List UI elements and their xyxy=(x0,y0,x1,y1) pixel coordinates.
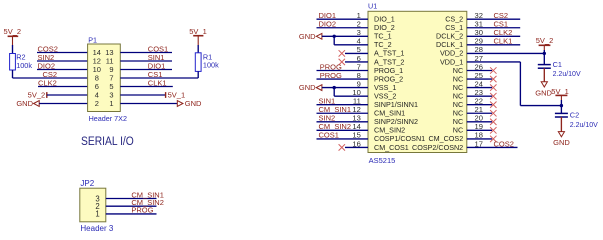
wire CLK2 xyxy=(38,86,88,88)
connector P1 body xyxy=(88,44,121,112)
wire VDD_2 to C1 xyxy=(543,53,545,64)
wire JP2 pin 1 xyxy=(106,213,157,215)
wire VDD_1 vertical xyxy=(519,62,521,106)
svg-text:GND: GND xyxy=(535,89,552,98)
wire U1 pin 11 xyxy=(317,104,369,106)
no-connect X pin 16 xyxy=(339,144,345,150)
svg-text:GND: GND xyxy=(299,32,316,41)
power port 5V_2 (U1) xyxy=(536,36,554,50)
wire CS1 xyxy=(120,77,198,79)
wire 5V_2 row xyxy=(47,94,88,96)
svg-text:1: 1 xyxy=(109,99,113,108)
svg-text:100k: 100k xyxy=(203,61,219,70)
wire DIO2 xyxy=(37,69,88,71)
ground GND (U1 pins 9-10) xyxy=(299,83,322,92)
svg-text:GND: GND xyxy=(553,138,570,147)
svg-text:AS5215: AS5215 xyxy=(369,156,396,165)
power port 5V_1 (row 6, bar) xyxy=(166,91,186,100)
wire U1 pin 32 xyxy=(467,18,520,20)
wire 5V_2 stem xyxy=(543,50,545,53)
capacitor C1 xyxy=(538,60,581,78)
no-connect X pin 21 xyxy=(490,110,496,116)
wire VSS elbow xyxy=(333,88,335,97)
capacitor C2 xyxy=(555,111,598,129)
wire C2 to GND xyxy=(560,117,562,132)
svg-text:GND: GND xyxy=(16,99,33,108)
svg-text:C1: C1 xyxy=(553,60,562,69)
node junction TC xyxy=(333,35,336,38)
svg-text:COS2: COS2 xyxy=(494,139,514,148)
wire GND row right xyxy=(120,103,177,105)
node junction VDD_1 xyxy=(560,104,563,107)
no-connect X pin 22 xyxy=(490,102,496,108)
no-connect X pin 5 xyxy=(339,50,345,56)
op-amp IC U1 body xyxy=(368,11,467,152)
wire U1 pin 27 (VDD_1) xyxy=(467,61,521,63)
no-connect X pin 18 xyxy=(490,136,496,142)
ground GND (U1 pins 3-4) xyxy=(299,32,322,41)
svg-text:CLK1: CLK1 xyxy=(494,37,513,46)
svg-text:2.2u/10V: 2.2u/10V xyxy=(553,71,581,78)
wire U1 pin 22 stub xyxy=(467,104,492,106)
wire 5V_1 to R1 xyxy=(197,45,199,53)
svg-text:5V_2: 5V_2 xyxy=(4,27,22,36)
power port 5V_1 (U1) xyxy=(551,87,569,100)
svg-text:5V_1: 5V_1 xyxy=(168,91,186,100)
wire COS2 xyxy=(37,52,88,54)
wire JP2 pin 2 xyxy=(106,205,157,207)
wire JP2 pin 3 xyxy=(106,198,157,200)
svg-text:2.2u/10V: 2.2u/10V xyxy=(570,122,598,129)
resistor R2 xyxy=(10,53,33,71)
connector JP2 body xyxy=(80,188,106,222)
wire U1 pin 26 stub xyxy=(467,70,492,72)
wire U1 pin 28 (VDD_2) xyxy=(467,52,545,54)
wire U1 pin 9 xyxy=(322,87,368,89)
node junction VSS xyxy=(333,86,336,89)
ground GND (P1 left) xyxy=(16,99,39,108)
wire DIO1 xyxy=(120,69,172,71)
wire U1 pin 13 xyxy=(317,121,369,123)
wire VDD_1 to C2 xyxy=(560,106,562,113)
wire U1 pin 20 stub xyxy=(467,121,492,123)
wire U1 pin 8 xyxy=(317,78,369,80)
wire SIN1 xyxy=(120,60,172,62)
power port 5V_1 (top) xyxy=(189,27,207,45)
wire 5V_1 stem xyxy=(560,100,562,106)
no-connect X pin 24 xyxy=(490,84,496,90)
power port 5V_2 (row 6, bar) xyxy=(28,91,47,100)
power port 5V_2 (top left) xyxy=(4,27,22,45)
wire U1 pin 23 stub xyxy=(467,95,492,97)
node junction VDD_2 xyxy=(543,52,546,55)
ground GND (C2) xyxy=(553,132,570,148)
svg-text:1: 1 xyxy=(95,210,99,219)
wire U1 pin 14 xyxy=(317,129,369,131)
wire CLK1 xyxy=(120,86,173,88)
svg-text:PROG: PROG xyxy=(131,206,153,215)
wire U1 pin 12 xyxy=(317,112,369,114)
svg-text:GND: GND xyxy=(185,99,202,108)
wire 5V_1 row xyxy=(120,94,165,96)
wire TC elbow xyxy=(333,36,335,45)
ground GND (P1 right) xyxy=(177,99,202,108)
svg-text:100k: 100k xyxy=(16,61,32,70)
wire U1 pin 15 xyxy=(317,138,369,140)
no-connect X pin 25 xyxy=(490,76,496,82)
wire U1 pin 30 xyxy=(467,35,520,37)
wire U1 pin 29 xyxy=(467,44,520,46)
svg-text:SERIAL I/O: SERIAL I/O xyxy=(81,134,134,148)
wire U1 pin 24 stub xyxy=(467,87,492,89)
wire U1 pin 10 xyxy=(334,95,368,97)
wire C1 to GND xyxy=(543,68,545,82)
wire U1 pin 3 xyxy=(322,35,368,37)
no-connect X pin 26 xyxy=(490,67,496,73)
wire U1 pin 6 stub xyxy=(345,61,368,63)
wire CS2 xyxy=(13,77,88,79)
wire U1 pin 21 stub xyxy=(467,112,492,114)
wire 5V_2 to R2 xyxy=(12,45,14,54)
svg-text:P1: P1 xyxy=(88,35,97,44)
wire SIN2 xyxy=(37,60,88,62)
wire U1 pin 16 stub xyxy=(345,146,368,148)
svg-text:JP2: JP2 xyxy=(80,179,94,188)
no-connect X pin 23 xyxy=(490,93,496,99)
svg-text:GND: GND xyxy=(299,83,316,92)
wire U1 pin 2 xyxy=(317,27,369,29)
wire COS1 xyxy=(120,52,172,54)
no-connect X pin 6 xyxy=(339,59,345,65)
wire R2 to CS2 net xyxy=(12,70,14,78)
svg-text:5V_2: 5V_2 xyxy=(536,36,554,45)
wire U1 pin 5 stub xyxy=(345,52,368,54)
svg-text:U1: U1 xyxy=(368,2,377,11)
wire U1 pin 19 stub xyxy=(467,129,492,131)
wire U1 pin 4 xyxy=(334,44,368,46)
no-connect X pin 20 xyxy=(490,119,496,125)
svg-text:5V_1: 5V_1 xyxy=(189,27,207,36)
svg-text:CM_COS1: CM_COS1 xyxy=(374,143,409,152)
svg-text:Header 3: Header 3 xyxy=(80,224,113,233)
svg-text:2: 2 xyxy=(95,99,99,108)
wire VDD_1 horizontal xyxy=(520,105,561,107)
wire R1 to CS1 net xyxy=(197,71,199,78)
svg-text:C2: C2 xyxy=(570,111,579,120)
no-connect X pin 19 xyxy=(490,127,496,133)
wire U1 pin 1 xyxy=(317,18,369,20)
wire U1 pin 17 xyxy=(467,146,518,148)
wire U1 pin 31 xyxy=(467,27,520,29)
wire U1 pin 7 xyxy=(317,70,369,72)
wire U1 pin 18 stub xyxy=(467,138,492,140)
ground GND (C1) xyxy=(535,82,552,98)
wire GND row xyxy=(39,103,87,105)
svg-text:COSP2/COSN2: COSP2/COSN2 xyxy=(412,143,463,152)
svg-text:Header 7X2: Header 7X2 xyxy=(89,114,127,123)
wire U1 pin 25 stub xyxy=(467,78,492,80)
resistor R1 xyxy=(195,53,219,72)
